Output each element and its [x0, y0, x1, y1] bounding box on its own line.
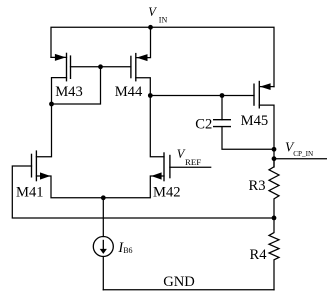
node dot M44 drain / M45 gate — [148, 93, 153, 98]
wire M42 source to tail — [103, 176, 164, 198]
transistor M42 channel bar — [163, 152, 165, 181]
transistor M45 gate bar — [253, 84, 255, 106]
arrow M44 source (PMOS) — [137, 54, 148, 61]
wire M45 source lead — [260, 86, 274, 88]
transistor M41 channel bar — [35, 150, 37, 181]
node dot R3-R4 junction — [272, 216, 277, 221]
svg-text:IN: IN — [159, 16, 168, 25]
wire M45 drain to R3 — [259, 105, 274, 167]
resistor R3 — [269, 159, 279, 218]
wire tail to current source — [102, 198, 104, 237]
svg-text:M41: M41 — [16, 184, 44, 200]
wire M44 drain to M42 drain — [150, 96, 164, 157]
svg-text:REF: REF — [185, 157, 201, 167]
wire M43 drain lead — [52, 78, 67, 104]
transistor M45 channel bar — [258, 81, 260, 109]
svg-text:C2: C2 — [195, 117, 212, 133]
transistor M41 gate bar — [31, 154, 33, 178]
wire M41 gate to feedback net — [12, 166, 274, 218]
svg-text:M43: M43 — [55, 84, 83, 100]
wire node A to M41 drain — [36, 104, 51, 157]
arrow M41 source (NMOS) — [40, 172, 50, 179]
transistor M44 gate bar — [130, 56, 132, 79]
wire M42 gate V_REF stub — [170, 166, 211, 168]
wire M44 drain lead — [136, 78, 151, 96]
current source IB6 — [93, 237, 113, 257]
arrow M45 source (PMOS) — [260, 83, 271, 90]
svg-text:R4: R4 — [250, 247, 268, 263]
node dot C2 tap — [220, 93, 225, 98]
transistor M43 channel bar — [66, 53, 68, 82]
node dot gate net M43/M44 — [98, 64, 103, 69]
svg-text:GND: GND — [163, 274, 195, 290]
wire M43 source lead — [51, 56, 67, 58]
transistor M43 gate bar — [70, 55, 72, 79]
capacitor C2 plates — [213, 120, 231, 127]
wire M44 source lead — [137, 27, 151, 57]
svg-text:M42: M42 — [153, 184, 181, 200]
svg-text:CP_IN: CP_IN — [293, 150, 314, 158]
wire C2 top tap — [221, 96, 223, 120]
arrow M43 source (PMOS) — [55, 54, 66, 61]
current source IB6 arrowhead — [100, 249, 107, 254]
svg-text:B6: B6 — [123, 246, 132, 255]
wire V_CP_IN output stub — [274, 158, 327, 160]
node dot M43 drain — [49, 102, 54, 107]
wire M43 gate-drain tie — [52, 67, 101, 104]
wire M44 gate lead — [101, 66, 131, 68]
wire C2 bottom to node V_CP_IN — [222, 127, 274, 150]
resistor R4 — [269, 218, 279, 290]
svg-text:M44: M44 — [115, 84, 143, 100]
svg-text:R3: R3 — [249, 178, 266, 194]
node dot V_IN — [148, 25, 153, 30]
node dot tail junction — [101, 195, 106, 200]
node dot V_CP_IN C2 join — [272, 147, 277, 152]
transistor M44 channel bar — [135, 53, 137, 82]
wire V_IN top rail — [51, 27, 274, 86]
wire M41 source to tail — [36, 176, 103, 198]
wire M45 gate net — [150, 95, 254, 97]
node dot V_CP_IN stub — [272, 156, 277, 161]
wire GND bottom rail — [103, 289, 274, 291]
wire current source to ground — [102, 257, 104, 290]
transistor M42 gate bar — [169, 155, 171, 179]
svg-text:M45: M45 — [241, 113, 269, 129]
wire M43 gate lead — [71, 66, 101, 68]
arrow M42 source (NMOS) — [151, 172, 161, 179]
